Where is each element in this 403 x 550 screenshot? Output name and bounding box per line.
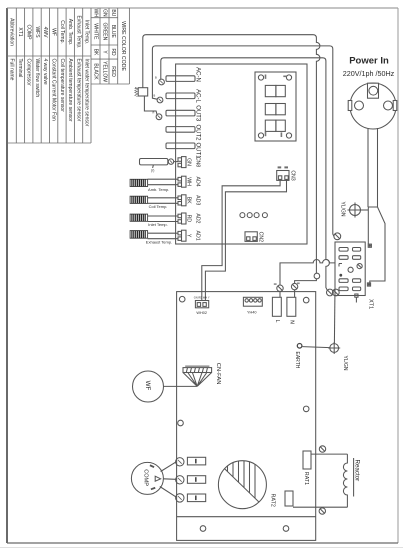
ambient temperature sensor Amb. Temp.: [130, 179, 169, 192]
svg-text:(r): (r): [151, 169, 154, 173]
svg-text:YL/GN: YL/GN: [342, 356, 348, 371]
svg-text:AC-L: AC-L: [195, 89, 201, 103]
reactor label with underline: [353, 458, 355, 497]
tiny silkscreen marks: [265, 75, 287, 138]
svg-text:Exhaust Temp.: Exhaust Temp.: [146, 239, 172, 244]
coil temperature sensor Coil Temp.: [130, 196, 167, 209]
run capacitor C1: [218, 461, 266, 509]
inlet water temperature sensor Inlet Temp.: [130, 214, 168, 227]
compressor COMP: [131, 462, 163, 494]
wire B drop into AC-L ring: [152, 97, 157, 100]
svg-text:Coil Temp.: Coil Temp.: [149, 204, 168, 209]
svg-text:GN: GN: [185, 158, 191, 166]
fuse holder L: [272, 297, 281, 316]
board mounting holes: [178, 296, 309, 531]
wire CN3 pin2 to bottom board connector: [205, 179, 286, 300]
fan motor WF: [133, 371, 164, 402]
wire jumper dot: [339, 274, 342, 277]
terminal block XT1: [335, 242, 365, 296]
svg-text:4WV: 4WV: [42, 27, 48, 39]
relay RAT2: [285, 491, 293, 506]
wire XT1 row2 to fuse L with humps: [280, 260, 335, 286]
XT1 corner screw top: [334, 233, 341, 240]
reactor coil: [343, 454, 347, 507]
svg-text:4WV: 4WV: [133, 87, 138, 98]
svg-text:Inlet water temperature sensor: Inlet water temperature sensor: [84, 59, 90, 127]
COMP terminal lugs U V W: [187, 457, 205, 501]
svg-text:BLUE: BLUE: [110, 25, 116, 39]
svg-text:Y: Y: [185, 234, 191, 238]
terminal lug OUT2: [166, 127, 195, 133]
wire AC line B with bend: [152, 46, 334, 236]
connector CN8: [174, 157, 186, 168]
abbreviation table (rotated 90deg): [7, 8, 129, 143]
earth screw YL/GN on board: [328, 342, 340, 354]
svg-text:N: N: [288, 320, 294, 324]
wire XT1 to earth screw: [333, 296, 336, 344]
svg-text:BK: BK: [185, 197, 191, 204]
svg-text:AD1: AD1: [194, 231, 200, 241]
tiny wire color marks: [274, 283, 300, 285]
svg-text:Coil Temp.: Coil Temp.: [59, 20, 65, 44]
svg-text:WH: WH: [185, 177, 191, 186]
connector CN2: [245, 232, 257, 242]
wire earth pin to YL/GN screw: [302, 347, 329, 348]
svg-text:OUT3: OUT3: [195, 105, 201, 122]
XT1 right side lead squares: [355, 244, 372, 302]
connector CN3: [277, 171, 289, 181]
connector AD4: [178, 176, 186, 187]
svg-text:Exhaust Temp.: Exhaust Temp.: [75, 16, 81, 49]
terminal lug OUT3: [166, 110, 195, 116]
wire from 4WV to OUT3 ring: [144, 96, 157, 115]
svg-text:CN-FAN: CN-FAN: [215, 363, 221, 385]
board connector YH40: [243, 297, 262, 306]
ring terminal at OUT3: [156, 114, 162, 120]
indicator hole row: [240, 213, 268, 218]
junction circle on wire A: [314, 273, 320, 279]
svg-text:WHITE: WHITE: [92, 23, 98, 40]
svg-text:RED: RED: [110, 66, 116, 77]
svg-text:COMP: COMP: [26, 25, 32, 41]
fuse holder N: [287, 297, 296, 316]
lug labels: [195, 67, 201, 159]
compressor terminal pads: [150, 464, 156, 490]
wire AC line A (top) with jump humps: [143, 35, 320, 284]
svg-text:EARTH: EARTH: [294, 352, 300, 369]
svg-text:Amb. Temp.: Amb. Temp.: [67, 19, 73, 46]
svg-text:WH: WH: [92, 9, 98, 18]
wire RAT1 to reactor top: [311, 453, 347, 455]
exhaust temperature sensor Exhaust Temp.: [130, 231, 172, 245]
svg-text:Amb. Temp.: Amb. Temp.: [148, 187, 169, 192]
wire screws to fuse holders: [280, 290, 295, 298]
svg-text:GN RD WH Y: GN RD WH Y: [194, 295, 210, 299]
wire CN3 pin1 to bottom board connector: [202, 179, 280, 300]
wires Coil sensor to AD3: [148, 198, 178, 204]
svg-text:R: R: [153, 111, 155, 115]
svg-text:WH02: WH02: [196, 311, 207, 315]
svg-text:XT1: XT1: [17, 27, 23, 36]
screw terminal N: [291, 283, 297, 289]
board signal connector WH02: [195, 301, 208, 308]
svg-text:220V/1ph /50Hz: 220V/1ph /50Hz: [343, 69, 395, 78]
svg-text:Compressor: Compressor: [26, 59, 32, 87]
svg-text:AD4: AD4: [194, 177, 200, 187]
svg-text:RAT1: RAT1: [303, 472, 309, 485]
wires Inlet sensor to AD2: [148, 216, 178, 222]
svg-text:B: B: [154, 94, 156, 98]
svg-text:Water flow switch: Water flow switch: [34, 59, 40, 98]
svg-text:BLACK: BLACK: [92, 63, 98, 80]
svg-text:BK: BK: [92, 49, 98, 56]
wire line C with bend: [161, 58, 330, 290]
svg-text:B: B: [155, 76, 157, 80]
screw gland lower: [319, 508, 325, 514]
svg-text:CN8: CN8: [194, 157, 200, 167]
svg-text:YL/GN: YL/GN: [340, 202, 346, 217]
connector AD2: [178, 213, 186, 224]
svg-text:Power In: Power In: [349, 56, 389, 67]
svg-text:Ambient temperature sensor: Ambient temperature sensor: [67, 59, 73, 122]
ring terminal at AC-N: [159, 79, 165, 85]
svg-text:YH40: YH40: [247, 311, 257, 315]
svg-text:Terminal: Terminal: [17, 59, 23, 78]
svg-text:Abbreviation: Abbreviation: [9, 18, 15, 46]
svg-text:GN: GN: [101, 9, 107, 17]
earth pin EARTH: [297, 344, 302, 349]
svg-text:L: L: [274, 320, 280, 323]
connector AD1: [178, 230, 186, 241]
svg-text:Exhaust temperature sensor: Exhaust temperature sensor: [75, 59, 81, 122]
wire RAT2 to reactor bottom: [293, 506, 347, 508]
protective earth mark YL/GN: [348, 203, 369, 218]
screw terminal L: [277, 285, 283, 291]
svg-text:Inlet Temp.: Inlet Temp.: [148, 222, 168, 227]
svg-text:Constant Current Motor Fan: Constant Current Motor Fan: [50, 59, 56, 121]
svg-text:Reactor: Reactor: [353, 460, 360, 482]
svg-text:RAT2: RAT2: [270, 494, 276, 507]
power cord: [368, 128, 385, 283]
terminal lug OUT1: [166, 143, 195, 149]
svg-text:WIRE COLOR CODE: WIRE COLOR CODE: [120, 21, 126, 71]
svg-text:AC-N: AC-N: [195, 67, 201, 82]
wire WF to CN-FAN: [164, 385, 197, 387]
svg-text:CN2: CN2: [258, 232, 264, 242]
svg-text:RD: RD: [110, 48, 116, 56]
svg-text:WFS: WFS: [34, 26, 40, 38]
svg-text:AD2: AD2: [194, 213, 200, 223]
svg-text:4 way valve: 4 way valve: [42, 59, 48, 85]
water flow switch lug WFS: [140, 159, 174, 169]
connector AD3: [178, 195, 186, 206]
svg-text:RD: RD: [185, 215, 191, 223]
svg-text:COMP: COMP: [143, 469, 149, 486]
svg-text:BU: BU: [110, 9, 116, 16]
4-way valve coil 4WV: [138, 88, 148, 96]
terminal lug AC-L: [166, 93, 195, 99]
fan connector CN-FAN: [183, 366, 212, 386]
tiny wire color letters: [153, 76, 158, 115]
wires Amb sensor to AD4: [148, 179, 178, 185]
display module U-DISP: [255, 72, 296, 141]
screw gland upper: [319, 446, 325, 452]
digit pair DS3: [265, 120, 285, 131]
svg-text:Coil temperature sensor: Coil temperature sensor: [59, 59, 65, 113]
power plug P1: [348, 83, 397, 129]
svg-text:XT1: XT1: [367, 299, 373, 309]
svg-text:YELLOW: YELLOW: [101, 61, 107, 82]
digit pair DS2: [265, 104, 285, 115]
ring terminal at AC-L: [157, 97, 163, 103]
svg-text:CN3: CN3: [289, 170, 295, 180]
terminal lug AC-N: [166, 76, 195, 82]
XT1 corner screws bottom: [327, 289, 340, 296]
wires COMP to board terminals: [155, 462, 176, 497]
wires Exhaust sensor to AD1: [148, 233, 178, 239]
svg-text:WF: WF: [50, 28, 56, 36]
svg-text:AD3: AD3: [194, 195, 200, 205]
svg-text:Inlet Temp.: Inlet Temp.: [84, 20, 90, 44]
svg-text:Full name: Full name: [9, 59, 15, 81]
digit pair DS1: [265, 85, 285, 96]
main PCB board outline: [176, 64, 307, 244]
bottom appliance board outline: [177, 292, 316, 541]
relay RAT1: [303, 451, 311, 469]
svg-text:WF: WF: [144, 381, 151, 391]
board terminal rings for COMP: [176, 458, 184, 503]
svg-text:OUT2: OUT2: [195, 124, 201, 141]
svg-text:GREEN: GREEN: [101, 22, 107, 40]
